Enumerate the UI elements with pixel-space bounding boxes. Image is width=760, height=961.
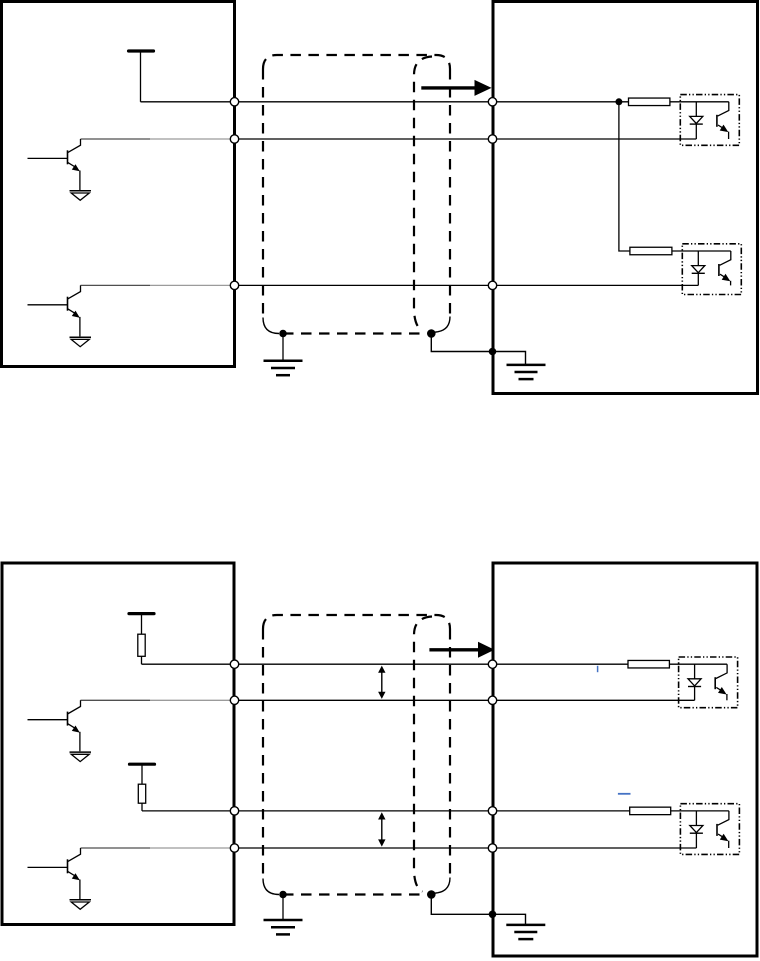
wire signal 2 dark segment at collector Q1: [81, 138, 151, 140]
wire signal 2 gray segment: [150, 138, 235, 140]
resistor R2 (top diagram): [630, 247, 672, 255]
shielded cable (top diagram) bottom gather (solid curves): [263, 317, 450, 334]
power rail T symbol (top diagram): [129, 49, 154, 52]
pull-up resistor RB (bottom diagram): [138, 784, 145, 803]
ground (emitter of Q4): [70, 900, 92, 910]
left box (controller, top diagram): [2, 2, 235, 367]
shielded cable (bottom diagram) bottom gather (solid curves): [263, 878, 450, 895]
wire signal 1 (bottom diagram): [142, 663, 629, 665]
wire signal 4 gray segment (bottom): [150, 847, 235, 849]
left box (controller, bottom diagram): [2, 563, 234, 925]
wire shield drain to earth ground (top left): [282, 334, 284, 360]
terminal circle right box pin 3 (bottom): [488, 807, 496, 815]
shielded cable (bottom diagram) inner sheath line (dashed): [414, 617, 432, 892]
LED of PC2: [692, 251, 705, 285]
wire resistor R3 to PC3: [669, 663, 727, 665]
wire signal 4 dark segment at collector Q4: [81, 847, 151, 849]
transistor Q1 (open-collector output): [28, 139, 81, 190]
twisted pair arrow 2 (between signals 3 and 4): [378, 812, 385, 846]
terminal circle right box pin 2 (bottom): [488, 696, 496, 704]
shielded cable (top diagram) outline (dashed): [263, 55, 450, 318]
wire signal 2 dark segment at collector Q3: [81, 699, 151, 701]
wire signal 3 (box to optocoupler PC2): [235, 284, 699, 286]
wire resistor RA to signal 1: [141, 656, 143, 664]
resistor R3 (bottom diagram): [628, 660, 669, 668]
optocoupler PC3 box: [679, 657, 738, 708]
arrow signal direction (top diagram): [421, 80, 491, 96]
frame ground (right box, bottom diagram): [506, 925, 545, 939]
shielded cable (bottom diagram) outline (dashed): [263, 615, 450, 879]
shield drain junction dot right (top): [427, 329, 436, 338]
wire shield drain to earth ground (bottom left): [282, 895, 284, 920]
shield drain junction dot left (top): [279, 330, 287, 338]
transistor Q3 (open-collector output): [28, 700, 81, 751]
wire from junction down to resistor R2: [619, 102, 630, 251]
phototransistor of PC2: [719, 251, 731, 285]
wire signal 3 gray segment: [150, 284, 235, 286]
optocoupler PC2 box: [682, 244, 741, 295]
terminal circle right box pin 1 (top): [488, 98, 496, 106]
optocoupler PC4 box: [680, 804, 739, 855]
arrow signal direction (bottom diagram): [429, 642, 494, 658]
shield drain junction dot right (bottom): [427, 890, 436, 899]
wire from power rail down to signal 1: [140, 52, 142, 102]
wire resistor R2 to PC2: [672, 250, 731, 252]
wire resistor R1 to PC1: [670, 101, 729, 103]
wire power rail B to resistor RB: [141, 765, 143, 785]
terminal circle left box pin 1 (bottom): [230, 660, 238, 668]
wire signal 3 dark segment at collector Q2: [81, 284, 151, 286]
terminal circle left box pin 4 (bottom): [230, 844, 238, 852]
phototransistor of PC1: [717, 102, 729, 139]
blue annotation tick on signal 1: [597, 666, 599, 672]
terminal circle left box pin 3 (bottom): [230, 807, 238, 815]
phototransistor of PC3: [715, 664, 727, 700]
shielded cable (top diagram) bottom dashed run: [283, 332, 423, 334]
power rail T symbol B (bottom diagram): [130, 763, 155, 766]
wire signal 2 gray segment (bottom): [150, 699, 235, 701]
LED of PC3: [688, 664, 701, 700]
shielded cable (bottom diagram) bottom dashed run: [283, 893, 423, 895]
pull-up resistor RA (bottom diagram): [138, 634, 145, 656]
shield drain junction dot left (bottom): [279, 891, 287, 899]
terminal circle right box pin 1 (bottom): [488, 660, 496, 668]
frame ground (right box, top diagram): [507, 365, 546, 379]
wire resistor R4 to PC4: [671, 810, 729, 812]
earth ground (cable shield, bottom diagram): [264, 920, 303, 934]
wire power rail A to resistor RA: [141, 614, 143, 634]
terminal circle left box pin 3 (top): [230, 281, 238, 289]
wire signal 3 (bottom diagram): [142, 810, 630, 812]
junction dot on right box edge (bottom): [489, 911, 497, 919]
power rail T symbol A (bottom diagram): [129, 612, 154, 615]
shielded cable (top diagram) inner sheath line (dashed): [414, 57, 432, 331]
wire signal 1 (left box to resistor): [141, 101, 629, 103]
ground (emitter of Q3): [70, 752, 92, 762]
terminal circle left box pin 2 (top): [230, 135, 238, 143]
blue annotation dash above resistor R4: [618, 793, 631, 795]
right box (servo drive, bottom diagram): [493, 563, 757, 956]
resistor R1 (top diagram): [629, 98, 670, 106]
right box (servo drive, top diagram): [493, 2, 758, 394]
terminal circle right box pin 4 (bottom): [488, 844, 496, 852]
resistor R4 (bottom diagram): [630, 807, 671, 815]
wire shield to frame ground (bottom right): [431, 895, 525, 925]
junction dot on right box edge (top): [489, 348, 497, 356]
terminal circle right box pin 3 (top): [488, 281, 496, 289]
earth ground (cable shield, top diagram): [264, 361, 303, 375]
terminal circle right box pin 2 (top): [488, 135, 496, 143]
ground (emitter of Q1): [70, 191, 92, 201]
ground (emitter of Q2): [70, 337, 92, 347]
terminal circle left box pin 2 (bottom): [230, 696, 238, 704]
wire signal 2 (box to optocoupler PC1): [235, 138, 697, 140]
wire signal 2 (box to optocoupler PC3): [235, 699, 695, 701]
twisted pair arrow 1 (between signals 1 and 2): [378, 666, 385, 699]
wire signal 4 (box to optocoupler PC4): [235, 847, 697, 849]
wire resistor RB to signal 3: [141, 803, 143, 811]
terminal circle left box pin 1 (top): [230, 98, 238, 106]
phototransistor of PC4: [717, 811, 729, 848]
LED of PC4: [690, 811, 703, 848]
LED of PC1: [690, 102, 703, 139]
junction node dot on signal 1: [615, 98, 622, 105]
transistor Q4 (open-collector output): [28, 848, 81, 899]
wire shield to frame ground (top right): [431, 334, 525, 365]
transistor Q2 (open-collector output): [28, 285, 81, 336]
optocoupler PC1 box: [680, 95, 739, 146]
